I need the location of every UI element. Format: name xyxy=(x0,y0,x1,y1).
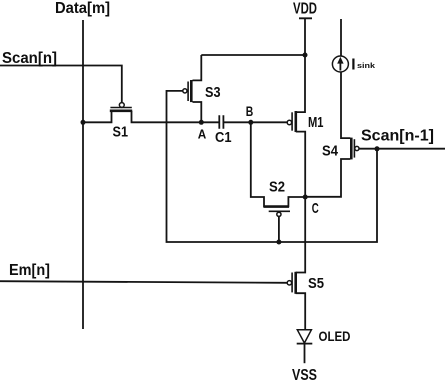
svg-text:M1: M1 xyxy=(308,114,324,131)
svg-text:C1: C1 xyxy=(215,130,232,146)
svg-text:S3: S3 xyxy=(205,84,221,101)
svg-text:S2: S2 xyxy=(269,179,285,196)
svg-text:VSS: VSS xyxy=(292,367,317,381)
svg-text:Scan[n-1]: Scan[n-1] xyxy=(361,127,434,144)
svg-text:B: B xyxy=(246,103,254,119)
svg-text:Scan[n]: Scan[n] xyxy=(2,50,57,67)
svg-text:Data[m]: Data[m] xyxy=(55,0,110,17)
svg-text:S5: S5 xyxy=(308,275,324,292)
svg-text:sink: sink xyxy=(357,61,376,70)
svg-text:S4: S4 xyxy=(322,143,339,160)
svg-text:C: C xyxy=(312,200,319,217)
svg-text:VDD: VDD xyxy=(293,0,317,17)
svg-text:OLED: OLED xyxy=(319,328,351,344)
svg-text:A: A xyxy=(198,127,207,142)
svg-text:I: I xyxy=(351,56,355,73)
svg-text:S1: S1 xyxy=(113,124,129,141)
svg-text:Em[n]: Em[n] xyxy=(9,262,50,279)
